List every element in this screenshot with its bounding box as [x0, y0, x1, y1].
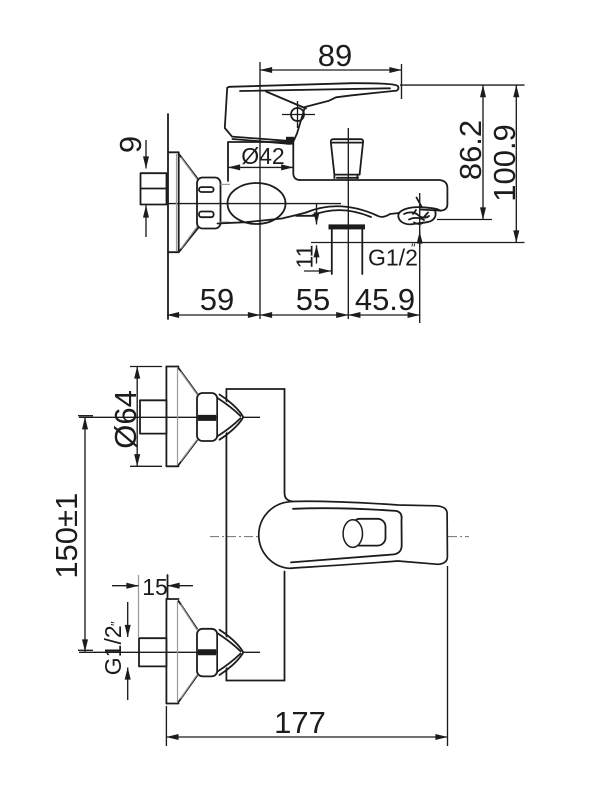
- dimension 177: [165, 706, 167, 746]
- cartridge ellipse (body side view): [228, 183, 286, 224]
- wire: centerline top inlet: [79, 416, 260, 418]
- svg-text:45.9: 45.9: [355, 282, 415, 317]
- wire: vertical extension line through handle center x=260: [259, 62, 261, 319]
- dimension 150±1: [78, 415, 93, 417]
- top inlet: conical tip: [218, 395, 244, 441]
- svg-text:Ø64: Ø64: [108, 390, 143, 449]
- bottom dimension row: 59 / 55 / 45.9: [167, 314, 260, 316]
- top inlet: hex nut: [197, 393, 217, 441]
- svg-text:86.2: 86.2: [453, 120, 488, 180]
- label G1/2" (bottom inlet): [127, 602, 129, 637]
- svg-text:15: 15: [142, 574, 168, 600]
- wire: vertical centerline through diverter knob and tub outlet x=348: [347, 128, 349, 319]
- dimension 100.9: [515, 85, 517, 242]
- dimension Ø64: [130, 366, 162, 368]
- connector between nut and body: [221, 183, 231, 185]
- wire: main horizontal centerline of body: [168, 203, 341, 205]
- inner lever collar: [291, 508, 402, 562]
- escutcheon flange (side profile): [168, 152, 179, 252]
- wall line: [167, 114, 169, 319]
- extension line top of lever: [400, 84, 525, 86]
- top inlet: nipple: [140, 400, 166, 433]
- dimension Ø42: [228, 166, 293, 168]
- bottom inlet: nipple: [139, 638, 166, 666]
- svg-text:11: 11: [292, 245, 318, 269]
- dimension 89: [401, 64, 403, 99]
- bottom inlet: escutcheon flange: [165, 599, 167, 704]
- hex nut (side view): [197, 178, 221, 229]
- wire: dashed body centerline: [210, 536, 469, 538]
- svg-text:100.9: 100.9: [487, 124, 522, 202]
- svg-text:Ø42: Ø42: [241, 143, 284, 169]
- svg-text:55: 55: [296, 282, 330, 317]
- dimension 11: [316, 204, 318, 212]
- svg-text:9: 9: [113, 136, 148, 153]
- svg-text:89: 89: [318, 38, 352, 73]
- bottom inlet: conical tip: [218, 630, 244, 676]
- body underside and tub-outlet dome: [218, 213, 307, 224]
- faucet body (front view): [259, 501, 448, 568]
- svg-text:150±1: 150±1: [49, 493, 84, 579]
- bottom inlet: hex nut: [197, 629, 217, 677]
- extension line outlet plane: [311, 242, 525, 244]
- body column under handle: [228, 142, 300, 181]
- wall bracket plate: [225, 389, 227, 681]
- wire: centerline bottom inlet: [79, 651, 260, 653]
- handle neck line: [266, 92, 306, 109]
- tub outlet tube: [331, 229, 333, 274]
- svg-text:″: ″: [108, 621, 123, 626]
- extension line spout underside: [437, 219, 492, 221]
- top inlet: escutcheon flange: [165, 367, 167, 467]
- handle pivot crosshair: [282, 114, 315, 116]
- body top surface and spout: [300, 180, 447, 211]
- bonnet under handle: [233, 139, 291, 144]
- svg-text:G1/2: G1/2: [100, 625, 126, 675]
- svg-text:177: 177: [274, 705, 326, 740]
- dimension 86.2: [482, 85, 484, 219]
- tub outlet flange (thick bar): [329, 224, 366, 229]
- svg-text:″: ″: [411, 241, 416, 256]
- wall nipple (side view): [141, 173, 167, 204]
- wire: vertical centerline through shower outlet x=419.7: [419, 193, 421, 323]
- handle lever: [229, 83, 398, 107]
- dimension 15: [138, 575, 140, 637]
- handle block: [225, 87, 305, 141]
- diverter knob (front view): [352, 519, 386, 546]
- diverter knob (side view): [331, 139, 363, 174]
- svg-text:59: 59: [200, 282, 234, 317]
- spout shower-hose outlet squiggle: [399, 207, 441, 213]
